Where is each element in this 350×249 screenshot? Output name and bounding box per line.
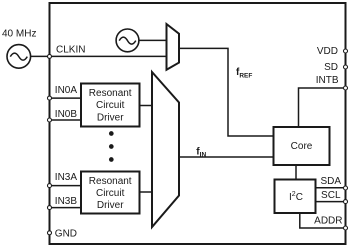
svg-text:40 MHz: 40 MHz bbox=[2, 29, 36, 40]
svg-text:INTB: INTB bbox=[316, 75, 339, 86]
svg-text:IN3B: IN3B bbox=[55, 196, 78, 207]
svg-text:SDA: SDA bbox=[320, 176, 341, 187]
svg-text:IN0A: IN0A bbox=[55, 85, 78, 96]
svg-text:Driver: Driver bbox=[97, 112, 124, 123]
svg-text:fREF: fREF bbox=[236, 67, 252, 79]
svg-text:VDD: VDD bbox=[317, 46, 338, 57]
svg-text:ADDR: ADDR bbox=[314, 216, 342, 227]
svg-text:Driver: Driver bbox=[97, 200, 124, 211]
svg-text:Resonant: Resonant bbox=[89, 176, 132, 187]
svg-text:I2C: I2C bbox=[289, 191, 303, 203]
svg-text:CLKIN: CLKIN bbox=[56, 45, 85, 56]
svg-text:fIN: fIN bbox=[196, 147, 206, 159]
svg-text:Circuit: Circuit bbox=[96, 188, 125, 199]
svg-text:Core: Core bbox=[291, 141, 313, 152]
svg-text:SD: SD bbox=[324, 62, 338, 73]
svg-text:IN3A: IN3A bbox=[55, 172, 78, 183]
svg-text:Circuit: Circuit bbox=[96, 100, 125, 111]
svg-text:Resonant: Resonant bbox=[89, 88, 132, 99]
svg-text:IN0B: IN0B bbox=[55, 109, 78, 120]
svg-text:SCL: SCL bbox=[321, 190, 341, 201]
svg-text:GND: GND bbox=[55, 229, 77, 240]
